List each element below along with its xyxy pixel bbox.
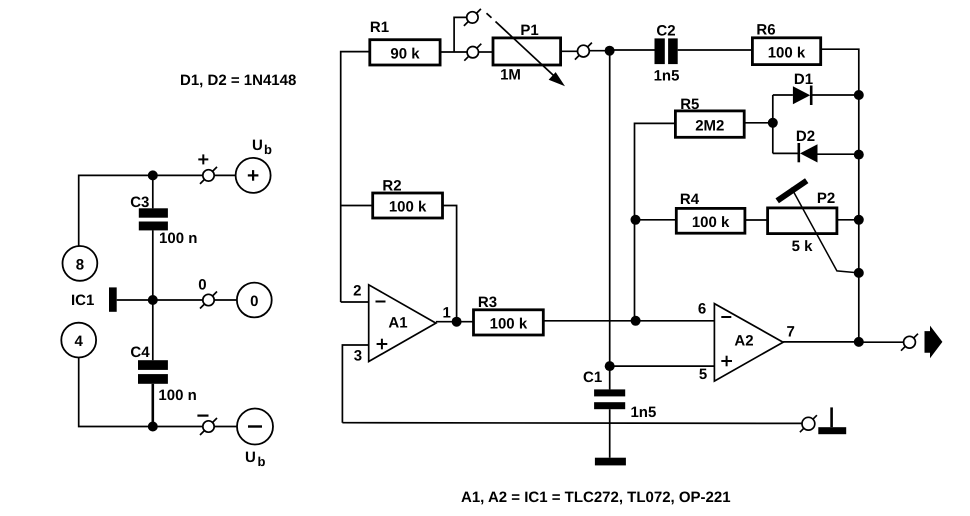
svg-text:1n5: 1n5: [630, 404, 656, 421]
svg-text:D1: D1: [794, 71, 813, 88]
node 0: [148, 295, 158, 305]
wire node to out terminal: [859, 341, 904, 343]
capacitor C1: [583, 366, 656, 421]
wire terminal to P1: [479, 51, 494, 53]
svg-text:P2: P2: [817, 190, 835, 207]
svg-text:C2: C2: [656, 22, 675, 39]
pin circle 4: [61, 323, 96, 358]
ground symbol right: [818, 407, 846, 434]
wire node to R4: [636, 219, 677, 221]
svg-text:1M: 1M: [500, 67, 521, 84]
node R4 left: [631, 215, 641, 225]
svg-text:b: b: [264, 142, 272, 157]
wire bracket up to upper terminal: [454, 17, 467, 52]
svg-text:5 k: 5 k: [792, 238, 814, 255]
svg-text:R5: R5: [680, 96, 699, 113]
terminal upper (P1 cw end): [464, 9, 481, 26]
node R5/diodes: [768, 118, 778, 128]
bottom wire: [342, 422, 802, 425]
svg-text:100 k: 100 k: [768, 45, 806, 62]
wire diode branch vertical: [772, 95, 774, 153]
svg-text:100 n: 100 n: [158, 387, 196, 404]
resistor R2: [373, 178, 443, 219]
op-amp A2: [698, 301, 795, 384]
svg-text:b: b: [258, 454, 266, 469]
node P2/right vertical: [854, 215, 864, 225]
potentiometer P1: [493, 22, 561, 83]
P2 wiper line to node: [791, 188, 859, 273]
terminal minus: [197, 416, 217, 435]
node A1 output: [452, 317, 462, 327]
wire node to A2 pin6: [636, 320, 715, 322]
svg-text:C1: C1: [583, 369, 602, 386]
svg-text:0: 0: [250, 293, 258, 310]
svg-text:R2: R2: [382, 178, 401, 195]
wire node to terminal minus: [153, 426, 203, 428]
svg-text:0: 0: [198, 277, 206, 294]
wire P1 to right terminal: [561, 50, 578, 52]
svg-text:R1: R1: [370, 19, 389, 36]
terminal 0: [198, 277, 217, 309]
wire R1 to terminal: [440, 51, 467, 53]
svg-text:C3: C3: [130, 194, 149, 211]
svg-text:U: U: [245, 449, 256, 466]
wire node1 to R3: [457, 321, 474, 323]
capacitor C4: [130, 300, 196, 404]
node output: [854, 337, 864, 347]
wire A2 out to node: [783, 341, 859, 343]
svg-text:IC1: IC1: [71, 292, 94, 309]
resistor R3: [474, 294, 544, 335]
svg-text:100 k: 100 k: [692, 214, 730, 231]
terminal ground: [800, 415, 817, 432]
svg-text:90 k: 90 k: [390, 46, 420, 63]
op-amp A1: [353, 282, 451, 364]
svg-text:100 n: 100 n: [159, 230, 197, 247]
node R3/x634: [631, 316, 641, 326]
svg-text:7: 7: [787, 323, 795, 340]
terminal lower (P1 left end): [464, 44, 481, 61]
pin circle 8: [63, 246, 98, 281]
wire node to A2 pin5: [610, 365, 715, 367]
left supply: wire top: [79, 175, 203, 246]
terminal output: [901, 334, 918, 351]
wire R4 to P2: [745, 219, 768, 221]
IC1 bar: [71, 287, 153, 311]
svg-text:R4: R4: [680, 191, 700, 208]
capacitor C2: [654, 22, 680, 84]
wire R5-left vertical x634: [635, 123, 676, 320]
svg-text:U: U: [252, 137, 263, 154]
node wiper/right vertical: [854, 268, 864, 278]
wire R6 to right vertical: [821, 49, 859, 342]
svg-text:100 k: 100 k: [490, 315, 528, 332]
wire D1 cathode to right vertical: [811, 94, 859, 96]
wire C3 to node0: [152, 230, 154, 300]
wire C4 to bottom node: [152, 384, 155, 427]
ground bar under C1: [595, 458, 626, 466]
svg-text:100 k: 100 k: [389, 199, 427, 216]
terminal +: [198, 154, 217, 184]
resistor R5: [675, 96, 744, 137]
wire R3 to pin6 node: [543, 320, 635, 322]
wire to D2 cathode: [773, 152, 799, 154]
svg-text:6: 6: [698, 301, 706, 318]
svg-text:2M2: 2M2: [695, 118, 724, 135]
svg-text:A2: A2: [734, 333, 753, 350]
wire terminal to Ub+ circle: [214, 174, 235, 176]
svg-text:R6: R6: [756, 22, 775, 39]
wire R2 left: [341, 205, 373, 207]
wire A1 pin3 bracket: [342, 345, 368, 423]
source circle 0: [237, 283, 272, 318]
wire node to C2: [610, 49, 655, 51]
node top of main vertical: [605, 46, 615, 56]
terminal right of P1: [575, 43, 592, 60]
diode D1: [793, 71, 813, 105]
node A2 pin5: [605, 361, 615, 371]
svg-text:2: 2: [353, 282, 361, 299]
wire terminal to node: [589, 50, 609, 52]
svg-text:1: 1: [443, 305, 451, 322]
P2 wiper bar: [777, 181, 807, 201]
main vertical wire x610: [609, 51, 611, 366]
resistor R6: [752, 22, 820, 65]
potentiometer P2: [768, 190, 837, 255]
svg-text:P1: P1: [520, 22, 538, 39]
svg-text:1n5: 1n5: [654, 68, 680, 85]
output arrow: [925, 326, 943, 359]
P1 wiper arrow: [487, 13, 564, 85]
note text A1 A2: [461, 489, 731, 506]
wire terminal0 to circle0: [214, 299, 237, 301]
wire C1 to ground bar: [609, 409, 611, 458]
svg-text:3: 3: [354, 348, 362, 365]
wire R2 right down to node1: [443, 206, 457, 322]
svg-text:5: 5: [699, 366, 707, 383]
node bottom left: [148, 422, 158, 432]
source circle Ub-: [237, 409, 273, 470]
wire P2 to right vertical: [837, 219, 859, 221]
wire to D1 anode: [773, 94, 793, 96]
wire R5 to node: [744, 122, 773, 124]
node top left: [148, 170, 158, 180]
capacitor C3: [130, 175, 197, 247]
wire C2 to R6: [678, 49, 753, 51]
wire A1 out to node1: [436, 321, 457, 323]
svg-text:R3: R3: [478, 294, 497, 311]
wire D2 anode to right vertical: [818, 153, 859, 155]
wire terminal to Ub- circle: [214, 426, 237, 428]
wire circle4 to bottom node: [79, 358, 148, 427]
resistor R1: [370, 19, 440, 65]
note text D1,D2: [180, 72, 296, 89]
diode D2: [796, 128, 818, 163]
wire A1 pin2: [341, 301, 369, 303]
svg-text:A1: A1: [388, 315, 407, 332]
svg-text:D1, D2 = 1N4148: D1, D2 = 1N4148: [180, 72, 296, 89]
resistor R4: [676, 191, 745, 233]
svg-text:C4: C4: [130, 344, 150, 361]
svg-text:D2: D2: [796, 128, 815, 145]
svg-text:8: 8: [76, 257, 84, 274]
node D1/right vertical: [854, 90, 864, 100]
source circle Ub+: [236, 137, 272, 193]
wire top-left to R1: [341, 52, 370, 302]
node D2/right vertical: [854, 150, 864, 160]
svg-text:A1, A2 = IC1 = TLC272, TL072,: A1, A2 = IC1 = TLC272, TL072, OP-221: [461, 489, 731, 506]
wire node0 to terminal0: [153, 299, 203, 301]
svg-text:4: 4: [75, 333, 84, 350]
